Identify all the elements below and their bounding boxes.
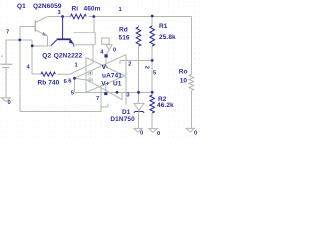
svg-text:R1: R1 (159, 23, 168, 30)
svg-text:7: 7 (6, 30, 9, 36)
wire Rb left lead (32, 73, 41, 75)
resistor R2 zigzag (150, 95, 155, 113)
svg-text:2: 2 (143, 66, 149, 69)
wire node7 dot1 down left rail (19, 40, 21, 111)
wire Ro bottom to ground (190, 90, 192, 128)
transistor Q1 symbol (35, 17, 47, 36)
wire supply bottom to ground (5, 68, 7, 98)
wire top rail node 3 (47, 16, 191, 18)
wire node4 to Q2 collector (32, 45, 51, 47)
wire R1 bottom node5 to R2 top (151, 46, 153, 95)
wire iprobe feed from top rail (93, 17, 95, 33)
node dot 3 (61, 15, 64, 18)
wire op-amp output vertical (125, 55, 127, 105)
ground 0 under D1 (134, 128, 142, 132)
wire node6 to -input (75, 78, 89, 80)
svg-text:0: 0 (113, 48, 116, 54)
ground 0 left (1, 98, 10, 102)
diode D1 zener (134, 92, 144, 113)
svg-text:uA741: uA741 (102, 72, 122, 79)
op-amp U1 triangle (86, 58, 125, 93)
wire dot1 to node4 corner (20, 40, 32, 74)
node dot iprobe feed (92, 15, 95, 18)
svg-text:V-: V- (102, 64, 108, 71)
svg-text:Ri: Ri (72, 6, 79, 13)
node dot wireC R1R2 (151, 91, 154, 94)
svg-text:Q2: Q2 (42, 52, 51, 59)
wire C left vertical from node6 (74, 78, 76, 92)
svg-text:Q1: Q1 (17, 3, 26, 10)
resistor Ri zigzag (71, 14, 87, 19)
battery source Vs (0, 55, 12, 67)
resistor Rd zigzag (136, 27, 141, 46)
svg-text:0: 0 (157, 131, 160, 137)
svg-text:Q2N2222: Q2N2222 (54, 52, 83, 59)
svg-text:460m: 460m (84, 6, 101, 13)
svg-text:U1: U1 (113, 80, 122, 87)
op-amp input circles (88, 71, 92, 82)
iprobe square (73, 33, 95, 45)
transistor Q2 symbol (51, 17, 74, 47)
svg-text:2: 2 (128, 61, 131, 67)
svg-text:46.2k: 46.2k (157, 102, 174, 109)
wire A to R1 chain (120, 60, 152, 64)
wire Q2 emitter right (92, 45, 94, 63)
wire D1 bottom to ground (138, 113, 140, 129)
node dot R1 top (151, 15, 154, 18)
ground 0 under Ro (186, 128, 194, 132)
resistor R1 zigzag (150, 26, 155, 46)
node dot 7 rail (18, 39, 21, 42)
wire R2 bottom to ground (151, 113, 153, 129)
svg-text:0: 0 (140, 131, 143, 137)
wire R1 top lead (151, 17, 153, 27)
wire node6 to +input long diagonal (75, 55, 127, 79)
resistor Ro zigzag (189, 75, 194, 91)
node dot D1 top (137, 91, 140, 94)
svg-text:Rd: Rd (119, 27, 128, 34)
wire supply rail left (6, 40, 20, 64)
node dot 5 wireA (151, 59, 154, 62)
svg-text:0: 0 (8, 100, 11, 106)
wire -input feedback diagonal (88, 80, 122, 99)
wire C drop to diagonal (121, 92, 123, 99)
node dot wireC left (116, 91, 119, 94)
wire Q1 emitter down (46, 36, 48, 46)
op-amp V+ pin stub and square (104, 84, 107, 95)
node dot 6 (73, 77, 76, 80)
resistor Rb zigzag (41, 72, 55, 76)
wire Q1 base (20, 26, 36, 40)
svg-text:Q2N6059: Q2N6059 (33, 3, 62, 10)
wire Rd stubs (138, 25, 140, 27)
svg-text:Ro: Ro (179, 68, 188, 75)
op-amp V- pin stub and square (104, 54, 107, 66)
wire opamp V+ pin to bottom rail (100, 86, 102, 111)
wire bottom rail (20, 104, 108, 112)
ground 0 under R2 (149, 129, 157, 133)
wire C feedback (75, 91, 153, 93)
svg-text:516: 516 (119, 35, 130, 42)
svg-text:7: 7 (96, 96, 99, 102)
svg-text:Rb: Rb (38, 80, 47, 87)
node dot 4 (31, 44, 34, 47)
wire right rail down to Ro (190, 17, 192, 75)
svg-text:D1N750: D1N750 (110, 116, 135, 123)
svg-text:0: 0 (194, 131, 197, 137)
svg-text:10: 10 (180, 78, 188, 85)
svg-text:V+: V+ (101, 81, 109, 88)
svg-text:740: 740 (48, 80, 59, 87)
wire Rb diagonal to emitter corner (58, 63, 93, 74)
svg-text:25.8k: 25.8k (159, 34, 176, 41)
wire Rd bottom down net2 (138, 47, 140, 92)
ground 0 opamp pin4 (102, 38, 109, 44)
